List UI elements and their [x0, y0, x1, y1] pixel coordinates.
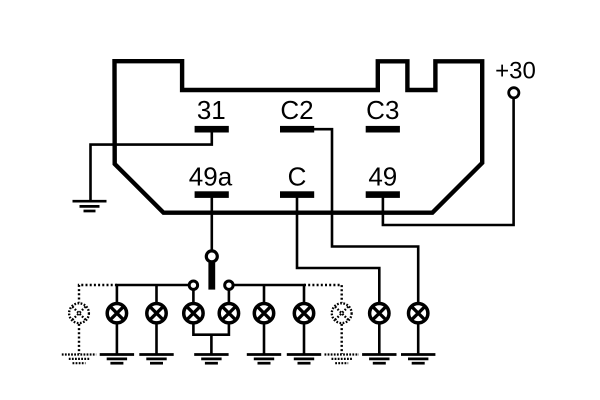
wire lamp E7 to ground [378, 324, 381, 354]
switch lever [208, 263, 215, 290]
ground G5 [247, 355, 281, 364]
ground G34 [194, 355, 228, 364]
svg-text:C3: C3 [366, 95, 399, 125]
ground G6 [287, 355, 321, 364]
dotted wire right lamp to ground [341, 324, 343, 354]
terminal pad 31 [195, 126, 229, 133]
wire lamp E1 to ground [116, 324, 119, 354]
wire lamp E8 to ground [417, 324, 420, 354]
wire lamp E2 to ground [155, 324, 158, 354]
svg-text:+30: +30 [495, 58, 536, 85]
wire contact right to lamp E4 [228, 290, 231, 304]
dotted wire right [304, 285, 342, 303]
svg-text:49: 49 [368, 162, 397, 192]
wire 31 to ground [91, 131, 212, 201]
relay unit body outline [115, 61, 483, 213]
ground G31 [73, 201, 107, 211]
terminal pad C2 [280, 126, 314, 133]
wire 49 to +30 [383, 99, 514, 226]
switch pivot contact [206, 251, 217, 262]
dotted ground GL [62, 355, 96, 364]
dotted wire left [79, 285, 117, 303]
lamp E1 [107, 304, 126, 323]
ground G1 [100, 355, 134, 364]
wire lamps E3+E4 merged to ground [193, 323, 229, 335]
lamp E8 [409, 304, 428, 323]
ground G7 [362, 355, 396, 364]
terminal pad 49 [366, 191, 400, 198]
wire 49a to switch pivot [211, 197, 214, 250]
lamp E6 [294, 304, 313, 323]
dotted wire left lamp to ground [78, 324, 80, 354]
dotted lamp EL [69, 303, 89, 323]
switch contact right [225, 281, 233, 289]
wire C2 to lamp E8 [313, 129, 418, 303]
lamp E7 [370, 304, 389, 323]
lamp bus left segment [117, 285, 189, 303]
lamp E2 [147, 304, 166, 323]
dotted ground GR [325, 355, 359, 364]
terminal circle +30 [509, 88, 519, 98]
lamp bus right segment [233, 285, 304, 303]
terminal pad 49a [195, 191, 229, 198]
ground G8 [401, 355, 435, 364]
ground G2 [139, 355, 173, 364]
wire contact left to lamp E3 [192, 290, 195, 304]
terminal pad C [280, 191, 314, 198]
lamp E5 [254, 304, 273, 323]
svg-text:31: 31 [197, 95, 226, 125]
svg-text:C: C [288, 162, 307, 192]
wire lamp E5 to ground [263, 324, 266, 354]
svg-text:49a: 49a [189, 162, 233, 192]
switch contact left [189, 281, 197, 289]
lamp E4 [219, 304, 238, 323]
dotted lamp ER [332, 303, 352, 323]
wire C to lamp E7 [297, 197, 379, 303]
wire lamp E6 to ground [303, 324, 306, 354]
wire lamp E2 drop [155, 285, 158, 303]
terminal pad C3 [366, 126, 400, 133]
wire lamp E5 drop [263, 285, 266, 303]
svg-text:C2: C2 [280, 95, 313, 125]
lamp E3 [184, 304, 203, 323]
